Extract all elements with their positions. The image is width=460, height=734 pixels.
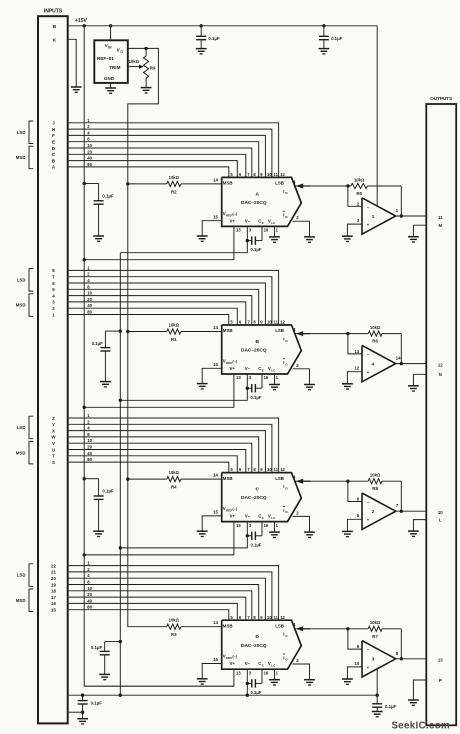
svg-text:20: 20 — [87, 297, 92, 302]
svg-text:40: 40 — [87, 451, 92, 456]
svg-text:10kΩ: 10kΩ — [354, 177, 365, 182]
svg-text:H: H — [52, 127, 55, 132]
svg-text:1: 1 — [372, 214, 375, 219]
wire input bit 2 row 3 — [69, 424, 272, 472]
svg-text:+: + — [367, 222, 370, 227]
svg-text:12: 12 — [280, 467, 285, 472]
svg-text:INPUTS: INPUTS — [44, 9, 63, 15]
svg-text:N: N — [439, 372, 442, 377]
svg-text:11: 11 — [274, 320, 279, 325]
svg-text:10kΩ: 10kΩ — [370, 473, 381, 478]
wire input bit 20 row 1 — [69, 154, 246, 177]
svg-text:LSB: LSB — [275, 181, 284, 186]
svg-text:Z: Z — [52, 416, 55, 421]
wire input bit 1 row 2 — [69, 270, 279, 325]
svg-text:0.1μF: 0.1μF — [91, 645, 103, 650]
wire input bit 1 row 3 — [69, 418, 279, 473]
wire V- rail (vertical) — [119, 253, 121, 696]
svg-text:LSD: LSD — [17, 573, 26, 578]
capacitor 0.1uF supply bypass row 1 — [83, 182, 86, 185]
svg-text:DAC–20CQ: DAC–20CQ — [241, 643, 267, 649]
svg-text:LSD: LSD — [17, 277, 26, 282]
svg-text:(–): (–) — [232, 507, 237, 511]
svg-text:12: 12 — [280, 172, 285, 177]
wire input bit 1 row 1 — [69, 123, 279, 178]
wire input bit 8 row 2 — [69, 289, 259, 325]
svg-text:11: 11 — [274, 467, 279, 472]
svg-text:14: 14 — [213, 473, 218, 478]
svg-text:2: 2 — [372, 509, 375, 514]
wire input bit 2 row 2 — [69, 277, 272, 325]
svg-text:3: 3 — [372, 657, 375, 662]
svg-text:16: 16 — [51, 601, 56, 606]
op-amp U6c section 2 — [362, 493, 396, 529]
svg-text:B: B — [52, 158, 55, 163]
svg-text:10: 10 — [87, 143, 92, 148]
svg-text:10: 10 — [87, 291, 92, 296]
wire +15V bottom run to DAC D pin 13 — [84, 685, 234, 687]
svg-text:80: 80 — [87, 605, 92, 610]
svg-text:14: 14 — [213, 177, 218, 182]
svg-text:+15V: +15V — [75, 18, 87, 24]
wire input bit 4 row 3 — [69, 431, 266, 473]
wire input bit 8 row 3 — [69, 437, 259, 473]
svg-text:10: 10 — [267, 172, 272, 177]
node inverting input — [346, 627, 349, 630]
svg-text:C: C — [255, 487, 259, 493]
wire non-inverting input to ground — [347, 372, 362, 384]
capacitor 0.1uF between V- and Cc — [246, 682, 249, 685]
svg-text:80: 80 — [87, 310, 92, 315]
svg-text:80: 80 — [87, 162, 92, 167]
wire input bit 80 row 1 — [69, 167, 229, 178]
svg-text:R9: R9 — [150, 65, 156, 70]
svg-text:DAC–20CQ: DAC–20CQ — [241, 348, 267, 354]
wire input bit 40 row 1 — [69, 161, 238, 178]
svg-text:14: 14 — [396, 356, 401, 361]
svg-text:V+: V+ — [230, 514, 236, 519]
svg-text:18: 18 — [51, 589, 56, 594]
svg-text:–: – — [367, 205, 370, 210]
svg-text:0.1μF: 0.1μF — [385, 704, 397, 709]
svg-text:10kΩ: 10kΩ — [370, 325, 381, 330]
wire input bit 8 row 4 — [69, 585, 259, 621]
svg-text:10: 10 — [267, 467, 272, 472]
svg-text:(–): (–) — [232, 360, 237, 364]
svg-text:0.1μF: 0.1μF — [331, 36, 343, 41]
svg-text:+: + — [367, 370, 370, 375]
svg-text:10: 10 — [267, 615, 272, 620]
svg-text:10kΩ: 10kΩ — [169, 618, 180, 623]
svg-text:MSD: MSD — [16, 598, 26, 603]
svg-text:V+: V+ — [230, 218, 236, 223]
svg-text:Y: Y — [52, 422, 55, 427]
wire output return M to ground — [413, 225, 426, 237]
resistor R2 10k — [126, 182, 129, 185]
svg-text:15: 15 — [213, 510, 218, 515]
svg-text:4: 4 — [372, 361, 375, 366]
svg-text:16: 16 — [264, 523, 269, 528]
wire V- input line from connector — [69, 694, 378, 696]
voltage reference U5 REF-01 — [94, 40, 128, 83]
svg-text:LSB: LSB — [275, 476, 284, 481]
svg-text:+: + — [367, 518, 370, 523]
svg-text:B: B — [255, 339, 259, 345]
svg-text:X: X — [52, 428, 55, 433]
node MSD bracket — [29, 146, 33, 169]
svg-text:V–: V– — [245, 366, 251, 371]
connector OUTPUTS box — [426, 104, 456, 725]
svg-text:40: 40 — [87, 598, 92, 603]
wire input bit 40 row 4 — [69, 603, 238, 620]
capacitor 0.1uF between V- and Cc — [246, 387, 249, 390]
svg-text:R7: R7 — [372, 634, 378, 639]
op-amp U6a section 1 — [362, 198, 396, 234]
svg-text:V: V — [52, 441, 55, 446]
svg-text:10kΩ: 10kΩ — [169, 175, 180, 180]
svg-text:M: M — [439, 223, 443, 228]
svg-text:12: 12 — [280, 615, 285, 620]
svg-text:0.1μF: 0.1μF — [102, 194, 114, 199]
wire +15V left rail (vertical) — [83, 26, 85, 686]
wire input bit 4 row 2 — [69, 283, 266, 325]
wire input bit 80 row 2 — [69, 315, 229, 326]
wire output return L to ground — [413, 520, 426, 532]
resistor R6 10k feedback — [348, 333, 368, 335]
node +15V top rail from input B — [69, 25, 378, 27]
svg-text:15: 15 — [213, 362, 218, 367]
resistor R3 10k — [128, 626, 167, 628]
node MSD bracket — [29, 441, 33, 464]
svg-text:20: 20 — [87, 445, 92, 450]
svg-text:LSD: LSD — [17, 425, 26, 430]
wire input bit 8 row 1 — [69, 142, 259, 178]
svg-text:0.1μF: 0.1μF — [251, 690, 262, 695]
op-amp U6d section 3 — [362, 641, 396, 677]
resistor R7 10k feedback — [348, 628, 368, 630]
wire input bit 10 row 2 — [69, 296, 252, 325]
svg-text:TRIM: TRIM — [109, 65, 120, 70]
svg-text:16: 16 — [264, 228, 269, 233]
svg-text:R6: R6 — [372, 339, 378, 344]
svg-text:MSB: MSB — [223, 476, 233, 481]
wire input bit 4 row 4 — [69, 578, 266, 620]
svg-text:20: 20 — [51, 576, 56, 581]
svg-text:16: 16 — [264, 670, 269, 675]
svg-text:10: 10 — [438, 510, 443, 515]
svg-text:20: 20 — [87, 149, 92, 154]
node MSD bracket — [29, 294, 33, 317]
svg-text:10kΩ: 10kΩ — [370, 620, 381, 625]
wire input bit 10 row 4 — [69, 591, 252, 620]
svg-text:V–: V– — [245, 218, 251, 223]
wire REF-01 Vin from +15V — [109, 24, 112, 27]
svg-text:0.1μF: 0.1μF — [102, 489, 114, 494]
capacitor 0.1uF on +15V line at x=323.9 — [322, 24, 325, 27]
capacitor 0.1uF between V- and Cc — [246, 534, 249, 537]
op-amp U6b section 4 — [362, 345, 396, 381]
wire TRIM wiper arrow — [128, 66, 140, 68]
svg-text:–: – — [367, 648, 370, 653]
wire input bit 40 row 3 — [69, 456, 238, 473]
wire input K to ground — [69, 39, 77, 87]
svg-text:80: 80 — [87, 457, 92, 462]
svg-text:R8: R8 — [372, 486, 378, 491]
svg-text:12: 12 — [438, 362, 443, 367]
svg-text:MSB: MSB — [223, 328, 233, 333]
wire input bit 10 row 1 — [69, 148, 252, 177]
node LSD bracket — [29, 121, 33, 144]
svg-text:11: 11 — [274, 615, 279, 620]
svg-text:10: 10 — [267, 320, 272, 325]
svg-text:13: 13 — [438, 658, 443, 663]
wire non-inverting input to ground — [347, 519, 362, 531]
resistor R5 10k feedback — [348, 185, 351, 187]
svg-text:U: U — [52, 447, 55, 452]
capacitor 0.1uF on +15V line at x=201.2 — [200, 24, 203, 27]
svg-text:13: 13 — [236, 375, 241, 380]
resistor R4 10k — [126, 477, 129, 480]
wire input bit 2 row 4 — [69, 572, 272, 620]
svg-text:D: D — [52, 146, 55, 151]
svg-text:17: 17 — [51, 595, 56, 600]
wire input bit 80 row 4 — [69, 610, 229, 621]
svg-text:40: 40 — [87, 156, 92, 161]
svg-text:12: 12 — [280, 320, 285, 325]
svg-text:+: + — [367, 665, 370, 670]
svg-text:16: 16 — [264, 375, 269, 380]
svg-text:10kΩ: 10kΩ — [169, 323, 180, 328]
svg-text:(–): (–) — [232, 212, 237, 216]
svg-text:40: 40 — [87, 303, 92, 308]
svg-text:10kΩ: 10kΩ — [169, 470, 180, 475]
resistor R1 10k — [126, 330, 129, 333]
svg-text:–: – — [367, 353, 370, 358]
node inverting input — [346, 332, 349, 335]
svg-text:12: 12 — [355, 366, 360, 371]
svg-text:0.1μF: 0.1μF — [251, 395, 262, 400]
svg-text:GND: GND — [104, 76, 115, 81]
svg-text:10: 10 — [87, 586, 92, 591]
svg-text:10kΩ: 10kΩ — [129, 59, 140, 64]
svg-text:11: 11 — [274, 172, 279, 177]
wire op-amp D V- supply from V- line — [376, 669, 378, 695]
svg-text:11: 11 — [438, 215, 443, 220]
svg-text:R5: R5 — [356, 191, 362, 196]
svg-text:MSD: MSD — [16, 450, 26, 455]
svg-text:20: 20 — [87, 592, 92, 597]
svg-text:14: 14 — [213, 325, 218, 330]
svg-text:0.1μF: 0.1μF — [92, 341, 104, 346]
svg-text:LSB: LSB — [275, 623, 284, 628]
svg-text:DAC–20CQ: DAC–20CQ — [241, 495, 267, 501]
svg-text:–: – — [367, 501, 370, 506]
capacitor 0.1uF supply bypass row 2 — [119, 329, 122, 332]
svg-text:0.1μF: 0.1μF — [251, 542, 262, 547]
svg-text:E: E — [52, 140, 55, 145]
node LSD bracket — [29, 416, 33, 439]
capacitor 0.1uF supply bypass row 3 — [83, 477, 86, 480]
svg-text:OUTPUTS: OUTPUTS — [430, 96, 452, 101]
ground REF-01 GND — [110, 83, 112, 88]
wire input bit 20 row 2 — [69, 302, 246, 325]
svg-text:10: 10 — [355, 661, 360, 666]
svg-text:P: P — [439, 678, 442, 683]
svg-text:13: 13 — [236, 228, 241, 233]
ground V- bypass — [82, 712, 84, 719]
svg-text:F: F — [52, 133, 55, 138]
svg-text:(–): (–) — [232, 655, 237, 659]
svg-text:T: T — [52, 454, 55, 459]
wire output return P to ground — [413, 680, 426, 700]
svg-text:V+: V+ — [230, 661, 236, 666]
node LSD bracket — [29, 269, 33, 292]
wire input bit 20 row 4 — [69, 597, 246, 620]
svg-text:A: A — [255, 191, 259, 197]
wire Vref rail from REF-01 output — [128, 48, 159, 626]
svg-text:V–: V– — [245, 661, 251, 666]
wire input bit 20 row 3 — [69, 450, 246, 473]
wire input bit 40 row 2 — [69, 308, 238, 325]
svg-text:0.1μF: 0.1μF — [91, 701, 103, 706]
DAC U2 B DAC-20CQ — [222, 325, 302, 374]
connector INPUTS box — [38, 16, 68, 723]
capacitor 0.1uF between V- and Cc — [246, 239, 249, 242]
node MSD bracket — [29, 589, 33, 612]
svg-text:MSD: MSD — [16, 155, 26, 160]
svg-text:13: 13 — [236, 670, 241, 675]
svg-text:MSB: MSB — [223, 623, 233, 628]
capacitor 0.1uF V- bypass left — [81, 694, 84, 697]
svg-text:0.1μF: 0.1μF — [251, 247, 262, 252]
svg-text:REF–01: REF–01 — [97, 56, 114, 61]
svg-text:LSB: LSB — [275, 328, 284, 333]
svg-text:R1: R1 — [171, 337, 177, 342]
potentiometer R9 10k — [144, 47, 147, 50]
svg-text:13: 13 — [236, 523, 241, 528]
capacitor 0.1uF V- bypass right — [376, 695, 378, 704]
svg-text:R4: R4 — [171, 485, 177, 490]
svg-text:R3: R3 — [171, 632, 177, 637]
DAC U3 C DAC-20CQ — [222, 473, 302, 522]
wire +15V right drop to op-amp A V+ — [376, 26, 378, 206]
wire input bit 4 row 1 — [69, 135, 266, 177]
wire output return N to ground — [413, 374, 426, 386]
svg-text:R2: R2 — [171, 189, 177, 194]
svg-text:DAC–20CQ: DAC–20CQ — [241, 200, 267, 206]
svg-text:15: 15 — [51, 608, 56, 613]
svg-text:15: 15 — [213, 657, 218, 662]
DAC U1 A DAC-20CQ — [222, 177, 302, 226]
svg-text:D: D — [255, 634, 259, 640]
svg-text:21: 21 — [51, 570, 56, 575]
capacitor 0.1uF supply bypass row 4 — [119, 640, 122, 643]
svg-text:13: 13 — [355, 349, 360, 354]
svg-text:MSB: MSB — [223, 181, 233, 186]
svg-text:15: 15 — [213, 214, 218, 219]
svg-text:LSD: LSD — [17, 130, 26, 135]
DAC U4 D DAC-20CQ — [222, 620, 302, 669]
svg-text:SeekIC.com: SeekIC.com — [392, 721, 450, 732]
svg-text:22: 22 — [51, 563, 56, 568]
svg-text:14: 14 — [213, 620, 218, 625]
resistor R8 10k feedback — [348, 480, 368, 482]
svg-text:L: L — [439, 518, 442, 523]
wire input bit 1 row 4 — [69, 566, 279, 621]
wire input bit 10 row 3 — [69, 443, 252, 472]
svg-text:MSD: MSD — [16, 303, 26, 308]
node inverting input — [346, 184, 349, 187]
wire input bit 80 row 3 — [69, 462, 229, 473]
wire non-inverting input to ground — [347, 224, 362, 236]
node LSD bracket — [29, 564, 33, 587]
svg-text:10: 10 — [87, 438, 92, 443]
svg-text:19: 19 — [51, 582, 56, 587]
node inverting input — [346, 480, 349, 483]
wire input bit 2 row 1 — [69, 129, 272, 177]
svg-text:0.1μF: 0.1μF — [208, 36, 220, 41]
svg-text:S: S — [52, 460, 55, 465]
svg-text:V–: V– — [245, 514, 251, 519]
wire non-inverting input to ground — [347, 667, 362, 679]
svg-text:V+: V+ — [230, 366, 236, 371]
wire connector lower stub — [69, 711, 83, 713]
